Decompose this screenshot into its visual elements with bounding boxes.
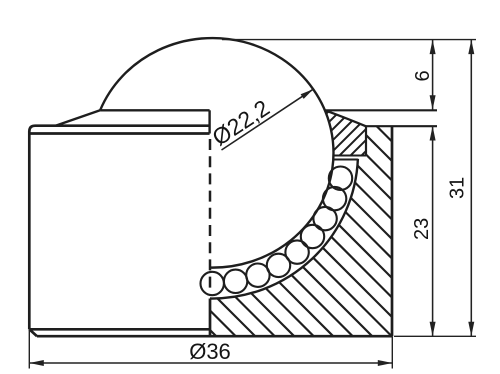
- extension line bottom right vertical: [391, 336, 393, 368]
- dimension 6: [430, 40, 436, 110]
- svg-text:6: 6: [412, 70, 434, 81]
- boss hole rim line (right): [325, 109, 437, 111]
- extension line from ball top: [222, 39, 476, 41]
- bearing balls: [201, 167, 353, 296]
- body section hatching: [206, 118, 394, 340]
- dimension diameter 36: [29, 360, 392, 366]
- retainer ring bottom line: [334, 155, 367, 157]
- housing right edge (section): [391, 126, 394, 336]
- section cut edge (bottom): [209, 299, 212, 337]
- race channel top line: [333, 159, 358, 161]
- ball race outer arc: [210, 159, 358, 299]
- leader diameter 22.2: [222, 89, 314, 150]
- retainer ring hatching: [316, 104, 369, 160]
- svg-text:23: 23: [411, 218, 433, 240]
- extension line bottom right horizontal: [394, 335, 476, 337]
- svg-text:Ø36: Ø36: [189, 339, 231, 364]
- housing body outline (left side view): [29, 126, 210, 337]
- dimension 23: [430, 126, 436, 336]
- extension line bottom left vertical: [28, 329, 30, 368]
- retainer ring outer edge: [365, 126, 367, 155]
- housing top face line (section right): [366, 125, 437, 127]
- dimension 31: [468, 40, 474, 337]
- centerline (dashed): [209, 139, 212, 291]
- svg-text:31: 31: [447, 177, 469, 199]
- main ball: [100, 38, 333, 268]
- retainer ring top taper: [325, 110, 366, 126]
- housing bottom edge: [37, 335, 392, 338]
- housing boss top (left): [56, 110, 210, 133]
